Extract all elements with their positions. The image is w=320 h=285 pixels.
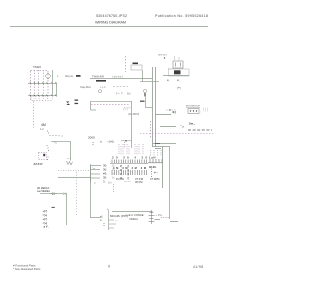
svg-text:9: 9 [108, 265, 110, 269]
svg-text:Publication No. 5995526418: Publication No. 5995526418 [155, 14, 208, 18]
svg-text:TIMER: TIMER [33, 65, 41, 69]
svg-text:4| |: 4| | [172, 110, 176, 114]
svg-text::: : [200, 110, 201, 114]
svg-text:3w|-av: 3w|-av [65, 74, 74, 78]
svg-text:|·|: |·| [112, 172, 115, 176]
svg-text:|·|: |·| [112, 164, 115, 168]
svg-text:1-2: 1-2 [40, 127, 44, 131]
svg-text:=¦+|: =¦+| [43, 221, 48, 225]
svg-text:≡,: ≡, [177, 78, 180, 82]
svg-text:TWIN-AIR: TWIN-AIR [92, 75, 104, 79]
svg-text:Cap-Mot: Cap-Mot [80, 85, 91, 89]
svg-text:(⊢): (⊢) [177, 86, 181, 90]
svg-text:5304476750-IPS2: 5304476750-IPS2 [96, 14, 127, 18]
svg-text:30 30 4 30: 30 30 4 30 [112, 156, 148, 160]
svg-text:|·|¬: |·|¬ [108, 181, 112, 185]
svg-text:ana am: ana am [158, 54, 167, 57]
svg-text:—·—: —·— [124, 179, 131, 183]
svg-text:+|=¦: +|=¦ [43, 209, 48, 213]
svg-text:a:: a: [100, 140, 103, 144]
svg-text:+ P.A.: + P.A. [156, 213, 163, 217]
svg-text:* Non-Illustrated Parts: * Non-Illustrated Parts [13, 267, 41, 271]
svg-text:+|=¦: +|=¦ [43, 217, 48, 221]
svg-text:¦=¦: ¦=¦ [63, 192, 66, 196]
svg-text:L.E.C. FONCE: L.E.C. FONCE [127, 213, 144, 217]
svg-text:pt: pt [182, 125, 184, 129]
svg-text:Lao MEMEA: Lao MEMEA [37, 190, 50, 193]
svg-text:=¦+|: =¦+| [43, 213, 48, 217]
svg-text:|¦|: |¦| [127, 168, 129, 172]
svg-text:¬1#1|: ¬1#1| [107, 140, 114, 144]
svg-text:PU PD: PU PD [116, 177, 124, 181]
svg-text:|·|: |·| [112, 168, 115, 172]
svg-text:41/98: 41/98 [193, 265, 203, 269]
svg-text:Bin: Bin [127, 91, 131, 95]
svg-text:JMJNP: JMJNP [33, 162, 43, 166]
svg-text:.·|·| ·|: .·|·| ·| [122, 108, 128, 111]
svg-text:2009.: 2009. [88, 136, 96, 140]
svg-text:3T RPM: 3T RPM [150, 177, 159, 181]
svg-text:WIRING DIAGRAM: WIRING DIAGRAM [95, 21, 126, 25]
svg-text:a V .: a V . [44, 225, 50, 229]
svg-text:=: = [94, 182, 96, 185]
svg-text:NOM-2: NOM-2 [130, 217, 139, 221]
svg-text:AR MERGA: AR MERGA [37, 187, 50, 190]
svg-text:⌜=: ⌜= [92, 167, 95, 171]
svg-text:≡: ≡ [100, 218, 102, 222]
svg-text:30·30·: 30·30· [149, 165, 157, 169]
svg-text:MOT.SWITCH: MOT.SWITCH [186, 106, 200, 108]
svg-text:Sw...: Sw... [189, 122, 195, 126]
svg-text:3.: 3. [103, 180, 106, 184]
svg-text:—: — [115, 220, 118, 223]
svg-text:( ani-ina ): ( ani-ina ) [112, 75, 123, 79]
svg-text:1 a H: 1 a H [149, 156, 155, 160]
svg-text:+ |-1: + |-1 [100, 85, 106, 89]
svg-text:4M: 4M [41, 123, 46, 127]
svg-text:|¦|: |¦| [127, 164, 129, 168]
svg-text:30 FM: 30 FM [135, 180, 142, 184]
svg-text:|¦|: |¦| [127, 172, 129, 176]
svg-text:|·|: |·| [112, 176, 115, 180]
svg-text:3M 3M 3M 3M: 3M 3M 3M 3M [113, 166, 146, 170]
svg-text:[— =: [— = [117, 91, 123, 95]
svg-text:#—: #— [154, 171, 158, 175]
svg-text:(30-4800): (30-4800) [128, 112, 139, 116]
svg-text:s: s [57, 74, 59, 78]
svg-text:MCGPL (P.PI): MCGPL (P.PI) [110, 214, 128, 218]
svg-text:≡,: ≡, [167, 78, 170, 82]
